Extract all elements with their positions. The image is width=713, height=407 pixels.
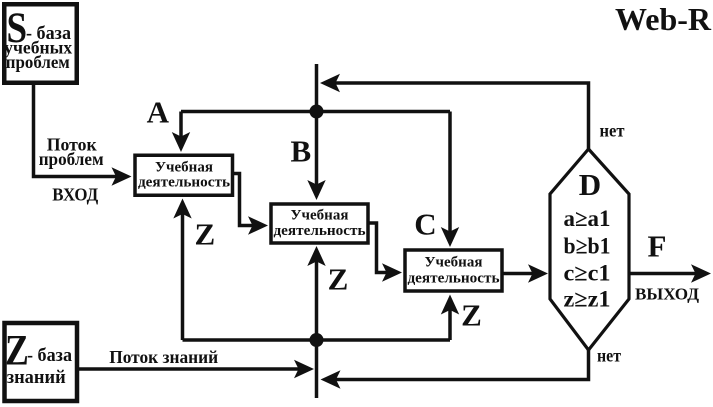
wire: Z stub up into block 3 bbox=[448, 309, 452, 341]
arrowhead into hexagon bbox=[528, 264, 548, 282]
wire: Z stub up into block 1 bbox=[181, 212, 185, 340]
box Z: knowledge base bbox=[5, 323, 78, 401]
arrowhead A down bbox=[172, 132, 190, 152]
svg-text:нет: нет bbox=[600, 121, 625, 141]
block 2: learning activity bbox=[271, 204, 368, 243]
svg-text:знаний: знаний bbox=[7, 367, 66, 388]
block 1: learning activity bbox=[135, 155, 233, 195]
svg-text:Учебная: Учебная bbox=[425, 255, 483, 271]
svg-text:ВЫХОД: ВЫХОД bbox=[635, 285, 699, 304]
svg-text:Z: Z bbox=[461, 298, 482, 333]
svg-text:Z: Z bbox=[328, 262, 349, 297]
arrowhead into block 2 bbox=[248, 216, 268, 234]
junction dot top bbox=[310, 105, 324, 119]
svg-text:c≥c1: c≥c1 bbox=[564, 261, 611, 286]
arrowhead into block 3 bbox=[382, 263, 402, 281]
junction dot bottom bbox=[310, 333, 324, 347]
wire: bottom "no" return from hexagon bottom bbox=[334, 350, 589, 380]
svg-text:Учебная: Учебная bbox=[155, 160, 213, 176]
wire: top "no" return from hexagon top to B line bbox=[334, 83, 589, 150]
arrowhead top "no" left bbox=[320, 74, 340, 92]
svg-text:a≥a1: a≥a1 bbox=[564, 206, 611, 231]
svg-text:Web-R: Web-R bbox=[615, 1, 712, 37]
wire: B vertical line bbox=[315, 64, 319, 186]
wire: A stub down into block 1 bbox=[179, 112, 183, 139]
svg-text:деятельность: деятельность bbox=[138, 175, 230, 191]
svg-text:F: F bbox=[648, 229, 667, 264]
svg-text:проблем: проблем bbox=[39, 149, 104, 169]
svg-text:C: C bbox=[414, 207, 436, 242]
wire: F output from hexagon bbox=[629, 272, 697, 276]
arrowhead F output right bbox=[691, 264, 711, 282]
wire: block2 to block3 step connector bbox=[369, 223, 388, 273]
svg-text:A: A bbox=[147, 95, 170, 130]
svg-text:z≥z1: z≥z1 bbox=[564, 287, 611, 312]
box S: problems base bbox=[4, 4, 77, 83]
wire: bottom vertical extension bbox=[315, 340, 319, 398]
wire: C stub down into block 3 bbox=[448, 112, 452, 234]
wire: knowledge flow from Z-box bbox=[77, 367, 300, 371]
svg-text:Поток знаний: Поток знаний bbox=[109, 347, 218, 367]
svg-text:проблем: проблем bbox=[6, 52, 70, 72]
wire: S-box output down then right to INPUT arrow bbox=[34, 84, 118, 177]
wire: block3 to hexagon bbox=[503, 272, 534, 276]
arrowhead bottom "no" left bbox=[321, 370, 341, 388]
svg-text:деятельность: деятельность bbox=[408, 271, 500, 287]
arrowhead Z up into block 2 bbox=[307, 246, 325, 266]
arrowhead knowledge flow right bbox=[294, 360, 314, 378]
arrowhead C down bbox=[441, 227, 459, 247]
wire: block1 to block2 step connector bbox=[233, 174, 254, 226]
arrowhead Z up into block 3 bbox=[441, 295, 459, 315]
svg-text:деятельность: деятельность bbox=[274, 223, 366, 239]
block 3: learning activity bbox=[405, 250, 502, 291]
svg-text:b≥b1: b≥b1 bbox=[564, 234, 611, 259]
svg-text:ВХОД: ВХОД bbox=[52, 185, 99, 205]
arrowhead INPUT into block 1 bbox=[112, 167, 132, 185]
svg-text:нет: нет bbox=[597, 346, 621, 366]
hexagon D: decision bbox=[550, 149, 629, 350]
wire: Z stub up into block 2 bbox=[315, 260, 319, 340]
svg-text:Z: Z bbox=[194, 217, 215, 252]
arrowhead Z up into block 1 bbox=[173, 199, 191, 219]
svg-text:D: D bbox=[579, 167, 601, 202]
wire: bottom horizontal Z bus at y=340 bbox=[183, 338, 451, 342]
wire: top horizontal A-C bus at y=111.5 bbox=[181, 110, 450, 114]
svg-text:B: B bbox=[290, 134, 311, 169]
arrowhead B down into block 2 bbox=[307, 180, 325, 200]
svg-text:- база: - база bbox=[27, 345, 72, 366]
svg-text:Учебная: Учебная bbox=[291, 208, 349, 224]
